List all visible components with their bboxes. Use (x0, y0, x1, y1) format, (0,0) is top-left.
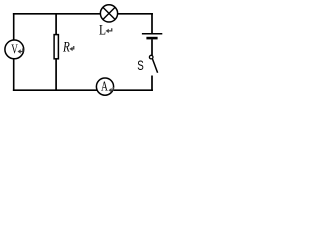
svg-text:R: R (62, 40, 70, 56)
svg-text:V: V (11, 42, 18, 57)
svg-text:A: A (101, 79, 108, 94)
svg-text:L: L (99, 22, 106, 38)
svg-text:S: S (137, 57, 144, 73)
